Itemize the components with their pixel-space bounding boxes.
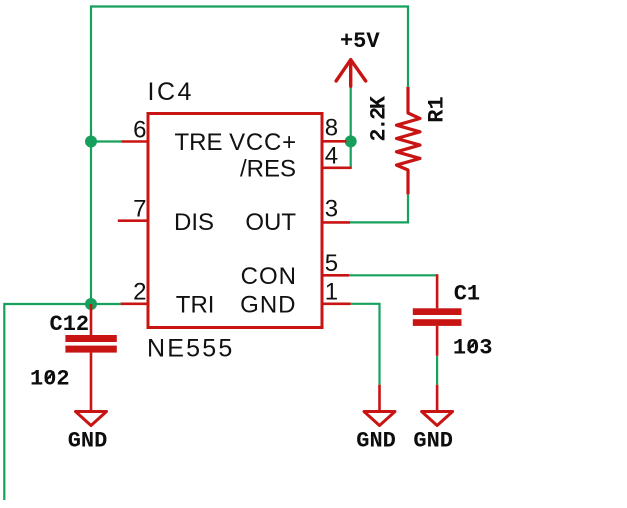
pin 5 CON stub [322,274,350,277]
svg-text:NE555: NE555 [147,335,234,363]
svg-text:OUT: OUT [245,209,296,236]
svg-text:DIS: DIS [174,209,214,236]
svg-text:+5V: +5V [340,29,380,54]
power +5V symbol arrow [336,60,366,87]
wire pin3 to resistor bottom [350,194,408,222]
svg-text:6: 6 [133,117,146,144]
svg-text:102: 102 [30,367,70,392]
svg-text:C1: C1 [454,282,480,307]
wire pin6 green stub [91,140,122,142]
node junction dot pin6 [85,136,97,148]
ground GND symbol right [422,412,453,426]
svg-text:/RES: /RES [240,156,296,183]
svg-text:2: 2 [133,279,146,306]
svg-text:IC4: IC4 [148,78,194,106]
capacitor C12 [65,335,116,353]
wire C1 bottom to GND [436,356,438,385]
pin 4 /RES stub [322,167,352,170]
svg-text:8: 8 [325,115,338,142]
pin 2 TRI stub [121,302,149,305]
svg-text:C12: C12 [50,312,90,337]
wire C12 bottom lead [90,353,93,412]
pin 3 OUT stub [322,221,351,224]
resistor R1 [397,87,421,194]
label 102 [45,372,54,382]
svg-text:GND: GND [68,429,108,454]
wire pin1 to GND [351,304,380,385]
svg-text:GND: GND [413,429,453,454]
pin 8 VCC+ stub [322,140,347,143]
capacitor C1 [413,308,462,326]
pin 1 GND stub [322,302,351,305]
op-amp IC4 body NE555 [148,114,322,328]
svg-text:GND: GND [240,291,296,318]
svg-text:3: 3 [325,196,338,223]
label 103 [468,341,477,351]
wire C1 mid lead [436,326,439,356]
svg-text:4: 4 [325,143,338,170]
wire C1 gnd lead [436,385,439,412]
svg-text:103: 103 [453,336,493,361]
svg-text:VCC+: VCC+ [229,129,297,156]
wire pin5 to C1 [349,274,437,276]
svg-text:1: 1 [325,279,338,306]
wire mid GND lead [378,385,381,412]
ground GND symbol left [76,412,107,426]
wire net1 top horizontal + left vertical + right vertical [91,7,408,305]
wire +5V stem to pin4 [350,86,352,168]
wire pin2 net to left edge and down [4,304,120,500]
svg-text:7: 7 [133,196,146,223]
ground GND symbol mid [364,412,395,426]
svg-text:TRI: TRI [176,291,215,318]
node junction dot pin8 [345,135,357,147]
svg-text:CON: CON [241,263,297,290]
pin 7 DIS stub [118,219,149,222]
svg-text:GND: GND [356,429,396,454]
svg-text:2.2K: 2.2K [367,95,392,141]
pin 6 TRE stub [122,140,149,143]
wire C12 top lead [90,304,93,335]
node junction dot pin2 [85,298,97,310]
svg-text:R1: R1 [425,96,450,122]
svg-text:5: 5 [325,250,338,277]
wire C1 top lead [436,274,439,308]
svg-text:TRE: TRE [175,129,223,156]
